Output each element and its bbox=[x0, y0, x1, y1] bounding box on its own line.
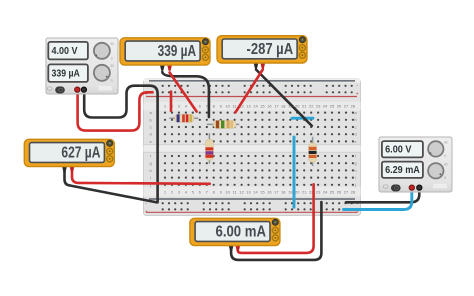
svg-text:15: 15 bbox=[260, 104, 265, 109]
svg-text:4.00 V: 4.00 V bbox=[52, 46, 78, 57]
svg-text:25: 25 bbox=[330, 190, 335, 195]
svg-text:30: 30 bbox=[110, 42, 114, 46]
svg-text:30: 30 bbox=[444, 162, 448, 166]
svg-text:g: g bbox=[354, 161, 356, 166]
svg-text:20: 20 bbox=[295, 190, 300, 195]
svg-text:28: 28 bbox=[351, 190, 356, 195]
svg-text:h: h bbox=[354, 168, 356, 173]
svg-text:30: 30 bbox=[444, 140, 448, 144]
svg-text:15: 15 bbox=[260, 190, 265, 195]
svg-text:19: 19 bbox=[288, 190, 293, 195]
svg-text:23: 23 bbox=[316, 104, 321, 109]
svg-text:c: c bbox=[355, 124, 357, 129]
svg-text:17: 17 bbox=[274, 104, 279, 109]
svg-text:d: d bbox=[149, 132, 151, 137]
svg-text:16: 16 bbox=[267, 190, 272, 195]
svg-text:24: 24 bbox=[323, 190, 328, 195]
svg-text:17: 17 bbox=[274, 190, 279, 195]
svg-text:0: 0 bbox=[111, 78, 113, 82]
svg-text:0: 0 bbox=[444, 154, 446, 158]
svg-text:23: 23 bbox=[316, 190, 321, 195]
svg-text:10: 10 bbox=[225, 190, 230, 195]
svg-text:16: 16 bbox=[267, 104, 272, 109]
svg-text:13: 13 bbox=[246, 104, 251, 109]
svg-text:-287 µA: -287 µA bbox=[247, 41, 294, 58]
svg-text:20: 20 bbox=[295, 104, 300, 109]
svg-text:13: 13 bbox=[246, 190, 251, 195]
svg-text:14: 14 bbox=[253, 190, 258, 195]
svg-text:27: 27 bbox=[344, 104, 349, 109]
svg-text:339 µA: 339 µA bbox=[52, 68, 81, 79]
svg-text:21: 21 bbox=[302, 190, 307, 195]
svg-text:h: h bbox=[149, 168, 151, 173]
svg-text:+: + bbox=[356, 91, 359, 97]
svg-text:0: 0 bbox=[111, 56, 113, 60]
svg-text:18: 18 bbox=[281, 104, 286, 109]
svg-text:j: j bbox=[354, 182, 356, 187]
svg-text:c: c bbox=[150, 125, 152, 130]
svg-text:26: 26 bbox=[337, 104, 342, 109]
svg-text:6.00 V: 6.00 V bbox=[385, 145, 412, 156]
svg-text:24: 24 bbox=[323, 104, 328, 109]
svg-text:25: 25 bbox=[330, 104, 335, 109]
svg-text:d: d bbox=[354, 132, 356, 137]
svg-text:14: 14 bbox=[253, 104, 258, 109]
svg-text:22: 22 bbox=[309, 104, 314, 109]
svg-text:12: 12 bbox=[239, 190, 244, 195]
svg-text:27: 27 bbox=[344, 190, 349, 195]
svg-text:6.29 mA: 6.29 mA bbox=[385, 165, 420, 176]
svg-text:0: 0 bbox=[444, 176, 446, 180]
svg-text:28: 28 bbox=[351, 104, 356, 109]
svg-text:10: 10 bbox=[225, 104, 230, 109]
svg-text:g: g bbox=[149, 161, 151, 166]
svg-text:i: i bbox=[150, 175, 151, 180]
svg-text:30: 30 bbox=[110, 64, 114, 68]
svg-text:i: i bbox=[355, 175, 356, 180]
svg-text:339 µA: 339 µA bbox=[158, 43, 197, 60]
svg-text:627 µA: 627 µA bbox=[61, 145, 100, 162]
svg-text:26: 26 bbox=[337, 190, 342, 195]
svg-text:6.00 mA: 6.00 mA bbox=[216, 224, 267, 241]
svg-text:18: 18 bbox=[281, 190, 286, 195]
svg-text:+: + bbox=[145, 210, 148, 216]
svg-text:21: 21 bbox=[302, 104, 307, 109]
